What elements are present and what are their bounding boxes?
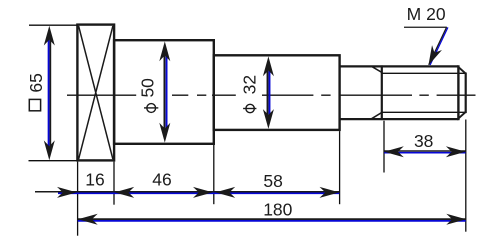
neck and thread major outline bottom: [340, 118, 459, 120]
dimension 38 blue line: [384, 152, 465, 154]
svg-text:50: 50: [138, 78, 158, 98]
dimension phi32 blue line: [269, 70, 271, 115]
svg-text:65: 65: [26, 73, 46, 92]
dimension 180 arrow left: [78, 214, 98, 225]
bottom dimension 16 46 58 blue line: [58, 192, 339, 194]
square section 65 body: [77, 25, 114, 161]
svg-text:M 20: M 20: [407, 4, 446, 24]
extension line below thread start: [383, 121, 385, 173]
thread runout diagonal bottom: [371, 113, 381, 119]
leader line M20 blue: [430, 27, 448, 65]
square section X diagonal 1: [79, 26, 113, 159]
thread root line bottom: [382, 111, 466, 113]
chamfer diagonal bottom: [459, 112, 466, 118]
label phi symbol of 32: [243, 104, 256, 112]
label phi symbol of 50: [144, 104, 158, 113]
dimension 38 black line: [384, 150, 465, 152]
dimension phi50 arrow down: [159, 123, 170, 143]
extension line below square right: [113, 162, 115, 205]
dimension phi50 black line: [163, 55, 165, 128]
dimension 65 black line: [49, 40, 51, 147]
extension line below phi32 right: [339, 131, 341, 204]
extension line 65 bottom: [29, 160, 78, 162]
leader arrow M20: [423, 45, 441, 68]
dimension phi32 arrow down: [263, 109, 274, 129]
phi50 section body: [114, 40, 214, 144]
dimension 65 blue line: [48, 40, 50, 147]
label square symbol of 65: [29, 99, 40, 110]
label 65 text: [26, 73, 46, 92]
svg-text:46: 46: [152, 169, 171, 189]
svg-text:180: 180: [263, 199, 292, 219]
centerline: [67, 94, 476, 96]
svg-text:32: 32: [239, 75, 259, 94]
dimension 58 arrow left: [215, 187, 235, 198]
label 32 text: [239, 75, 259, 94]
dimension 38 arrow right: [446, 146, 466, 157]
extension line below square left: [77, 162, 79, 236]
dimension 65 arrow down: [44, 140, 55, 160]
thread runout diagonal top: [371, 66, 381, 72]
neck and thread major outline top: [340, 65, 459, 67]
dimension 180 black line: [78, 218, 466, 220]
dimension 16 arrow left outside: [57, 187, 77, 198]
dimension phi32 black line: [267, 70, 269, 115]
svg-text:58: 58: [263, 171, 282, 191]
phi32 section body: [214, 55, 340, 130]
thread start vertical: [381, 65, 383, 120]
bottom dimension 16 46 58 black line: [35, 191, 339, 193]
leader shoulder line M20: [404, 26, 447, 28]
dimension 38 arrow left: [384, 146, 404, 157]
svg-text:38: 38: [414, 131, 433, 151]
dimension phi50 arrow up: [159, 41, 170, 61]
thread root line top: [382, 72, 466, 74]
dimension 65 arrow up: [44, 26, 55, 46]
dimension 58 arrow right: [320, 187, 340, 198]
chamfer diagonal top: [459, 67, 466, 73]
thread end vertical at chamfer start: [457, 65, 459, 120]
dimension 46 arrow right: [193, 187, 213, 198]
extension line below shaft end: [465, 120, 467, 232]
label 50 text: [138, 78, 158, 98]
dimension 16/46 arrow at 114: [114, 187, 134, 198]
svg-text:16: 16: [85, 169, 104, 189]
dimension phi32 arrow up: [263, 56, 274, 76]
leader line M20 black: [429, 27, 447, 65]
dimension phi50 blue line: [166, 55, 168, 128]
dimension 180 arrow right: [446, 214, 466, 225]
shaft end face vertical: [465, 73, 467, 114]
extension line 65 top: [29, 24, 77, 26]
square section X diagonal 2: [79, 26, 113, 159]
dimension 180 blue line: [78, 220, 466, 222]
extension line below phi50 right: [213, 145, 215, 204]
